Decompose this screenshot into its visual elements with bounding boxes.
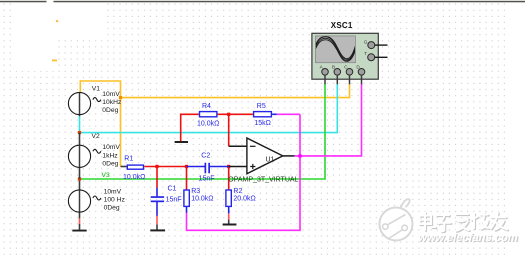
scope terminal D	[358, 69, 365, 76]
wire dark V2 bottom stub	[79, 167, 81, 179]
op-amp pin minus	[229, 145, 247, 147]
junction magenta output	[298, 154, 301, 157]
wire green V3 to scope A	[80, 84, 326, 179]
wire red drop to C1	[156, 167, 158, 188]
op-amp pin plus	[229, 166, 247, 168]
svg-text:1kHz: 1kHz	[102, 152, 118, 159]
op-amp U1	[247, 138, 283, 174]
ground below V3	[72, 230, 86, 232]
label R2	[233, 188, 255, 202]
scope stub D	[361, 75, 363, 85]
wire red R4 left to ground	[181, 114, 199, 141]
svg-text:T: T	[364, 51, 367, 56]
scope stub A	[324, 75, 326, 85]
label C2	[199, 153, 215, 183]
svg-text:R4: R4	[202, 103, 211, 110]
capacitor C2	[205, 163, 211, 174]
wire blue C2 left lead	[187, 166, 205, 168]
svg-text:10mV: 10mV	[102, 144, 120, 151]
wire cyan to scope B	[80, 84, 338, 133]
wire red R2 ground segment	[228, 213, 230, 220]
wire cyan V1-V2	[79, 116, 81, 133]
junction red R3 node	[185, 165, 188, 168]
scope terminal A	[322, 69, 329, 76]
wire dark V1 bottom stub	[79, 114, 81, 116]
junction cyan node	[78, 131, 81, 134]
wire blue C2 right lead	[210, 166, 229, 168]
wire magenta output to scope D	[294, 84, 361, 156]
svg-text:V2: V2	[92, 133, 100, 140]
scope terminal B	[334, 69, 341, 76]
wire dark V3 bottom stubs	[79, 212, 81, 230]
wire red to minus input	[228, 114, 230, 146]
svg-text:R2: R2	[233, 188, 242, 195]
scope stub C	[349, 75, 351, 85]
wire red R4-R5	[218, 113, 253, 115]
label V2	[92, 133, 121, 168]
label C1	[166, 185, 182, 203]
junction red R2 node	[227, 165, 230, 168]
svg-text:V3: V3	[102, 172, 110, 179]
scope terminal C	[346, 69, 353, 76]
svg-text:C2: C2	[201, 153, 210, 160]
label R4	[197, 103, 219, 128]
op-amp pin output	[283, 155, 295, 157]
svg-text:10.0kΩ: 10.0kΩ	[197, 121, 219, 128]
svg-text:C1: C1	[168, 185, 177, 192]
label V3	[102, 172, 126, 211]
wire blue R2 bottom stub	[228, 207, 230, 213]
label R3	[191, 188, 213, 202]
svg-text:G: G	[364, 39, 368, 44]
wire blue C1 top lead	[156, 188, 158, 197]
wire dark V2 top stub	[79, 133, 81, 146]
label R5	[254, 103, 271, 127]
source V3	[68, 190, 101, 212]
watermark logo	[380, 199, 413, 240]
svg-text:B: B	[332, 65, 335, 70]
scope stub B	[336, 75, 338, 85]
wire red C1 ground segment	[156, 216, 158, 225]
resistor R4	[200, 112, 217, 117]
wire dark R2 ground stub	[228, 220, 230, 224]
junction red R1-C1	[155, 165, 158, 168]
svg-text:15kΩ: 15kΩ	[254, 120, 271, 127]
scope terminal T	[368, 54, 375, 61]
wire yellow to scope C	[121, 84, 350, 98]
wire blue R5 right stub	[272, 113, 277, 115]
wire magenta feedback loop	[187, 114, 301, 230]
svg-text:10.0kΩ: 10.0kΩ	[123, 174, 145, 181]
svg-text:XSC1: XSC1	[331, 21, 353, 30]
wire red main summing node	[144, 166, 187, 168]
wire magenta R5 to output column	[277, 113, 300, 115]
svg-text:R1: R1	[124, 155, 133, 162]
svg-text:R5: R5	[257, 103, 266, 110]
junction green node	[78, 177, 81, 180]
svg-text:OPAMP_3T_VIRTUAL: OPAMP_3T_VIRTUAL	[228, 176, 298, 183]
junction yellow	[119, 96, 122, 99]
wire blue R3 bottom stub	[186, 207, 188, 213]
svg-text:0Deg: 0Deg	[102, 107, 118, 114]
wire dark C1 ground stub	[156, 225, 158, 230]
svg-text:100 Hz: 100 Hz	[104, 197, 126, 204]
resistor R5	[254, 112, 272, 117]
source V2	[68, 145, 101, 167]
svg-text:15nF: 15nF	[166, 196, 182, 203]
svg-text:0Deg: 0Deg	[104, 204, 120, 211]
svg-text:0Deg: 0Deg	[102, 161, 118, 168]
scope stub G	[375, 44, 388, 46]
junction red R4-R5 node	[227, 113, 230, 116]
resistor R1	[127, 165, 143, 169]
scope terminal G	[368, 42, 375, 49]
ground below R4	[175, 141, 188, 143]
watermark text dianzifashaoyou	[421, 213, 509, 232]
ground below C1	[150, 229, 165, 231]
source V1	[68, 92, 101, 114]
svg-text:www.elecfans.com: www.elecfans.com	[418, 232, 518, 244]
wire yellow V1 top loop	[80, 81, 120, 167]
svg-text:15nF: 15nF	[199, 175, 215, 182]
label R1	[123, 155, 145, 181]
resistor R3	[184, 190, 189, 206]
wire dark R1 left stub	[121, 166, 127, 168]
ground below R2	[223, 224, 237, 226]
capacitor C1	[151, 196, 164, 202]
wire red drop to R2	[228, 167, 230, 190]
wire red drop to R3	[186, 167, 188, 190]
svg-text:10.0kΩ: 10.0kΩ	[191, 195, 213, 202]
wire blue C1 bottom lead	[156, 202, 158, 216]
svg-text:10mV: 10mV	[102, 91, 120, 98]
svg-text:20.0kΩ: 20.0kΩ	[233, 195, 255, 202]
svg-text:U1: U1	[266, 156, 275, 163]
svg-text:R3: R3	[191, 188, 200, 195]
svg-text:V1: V1	[92, 86, 100, 93]
label V1	[92, 86, 122, 114]
scope stub T	[375, 56, 388, 58]
oscilloscope XSC1	[312, 33, 378, 79]
wire dark V3 top stub	[79, 181, 81, 191]
svg-text:10mV: 10mV	[104, 189, 122, 196]
wire red V3 ground segment	[79, 218, 81, 224]
svg-text:10kHz: 10kHz	[102, 99, 122, 106]
resistor R2	[226, 190, 231, 206]
